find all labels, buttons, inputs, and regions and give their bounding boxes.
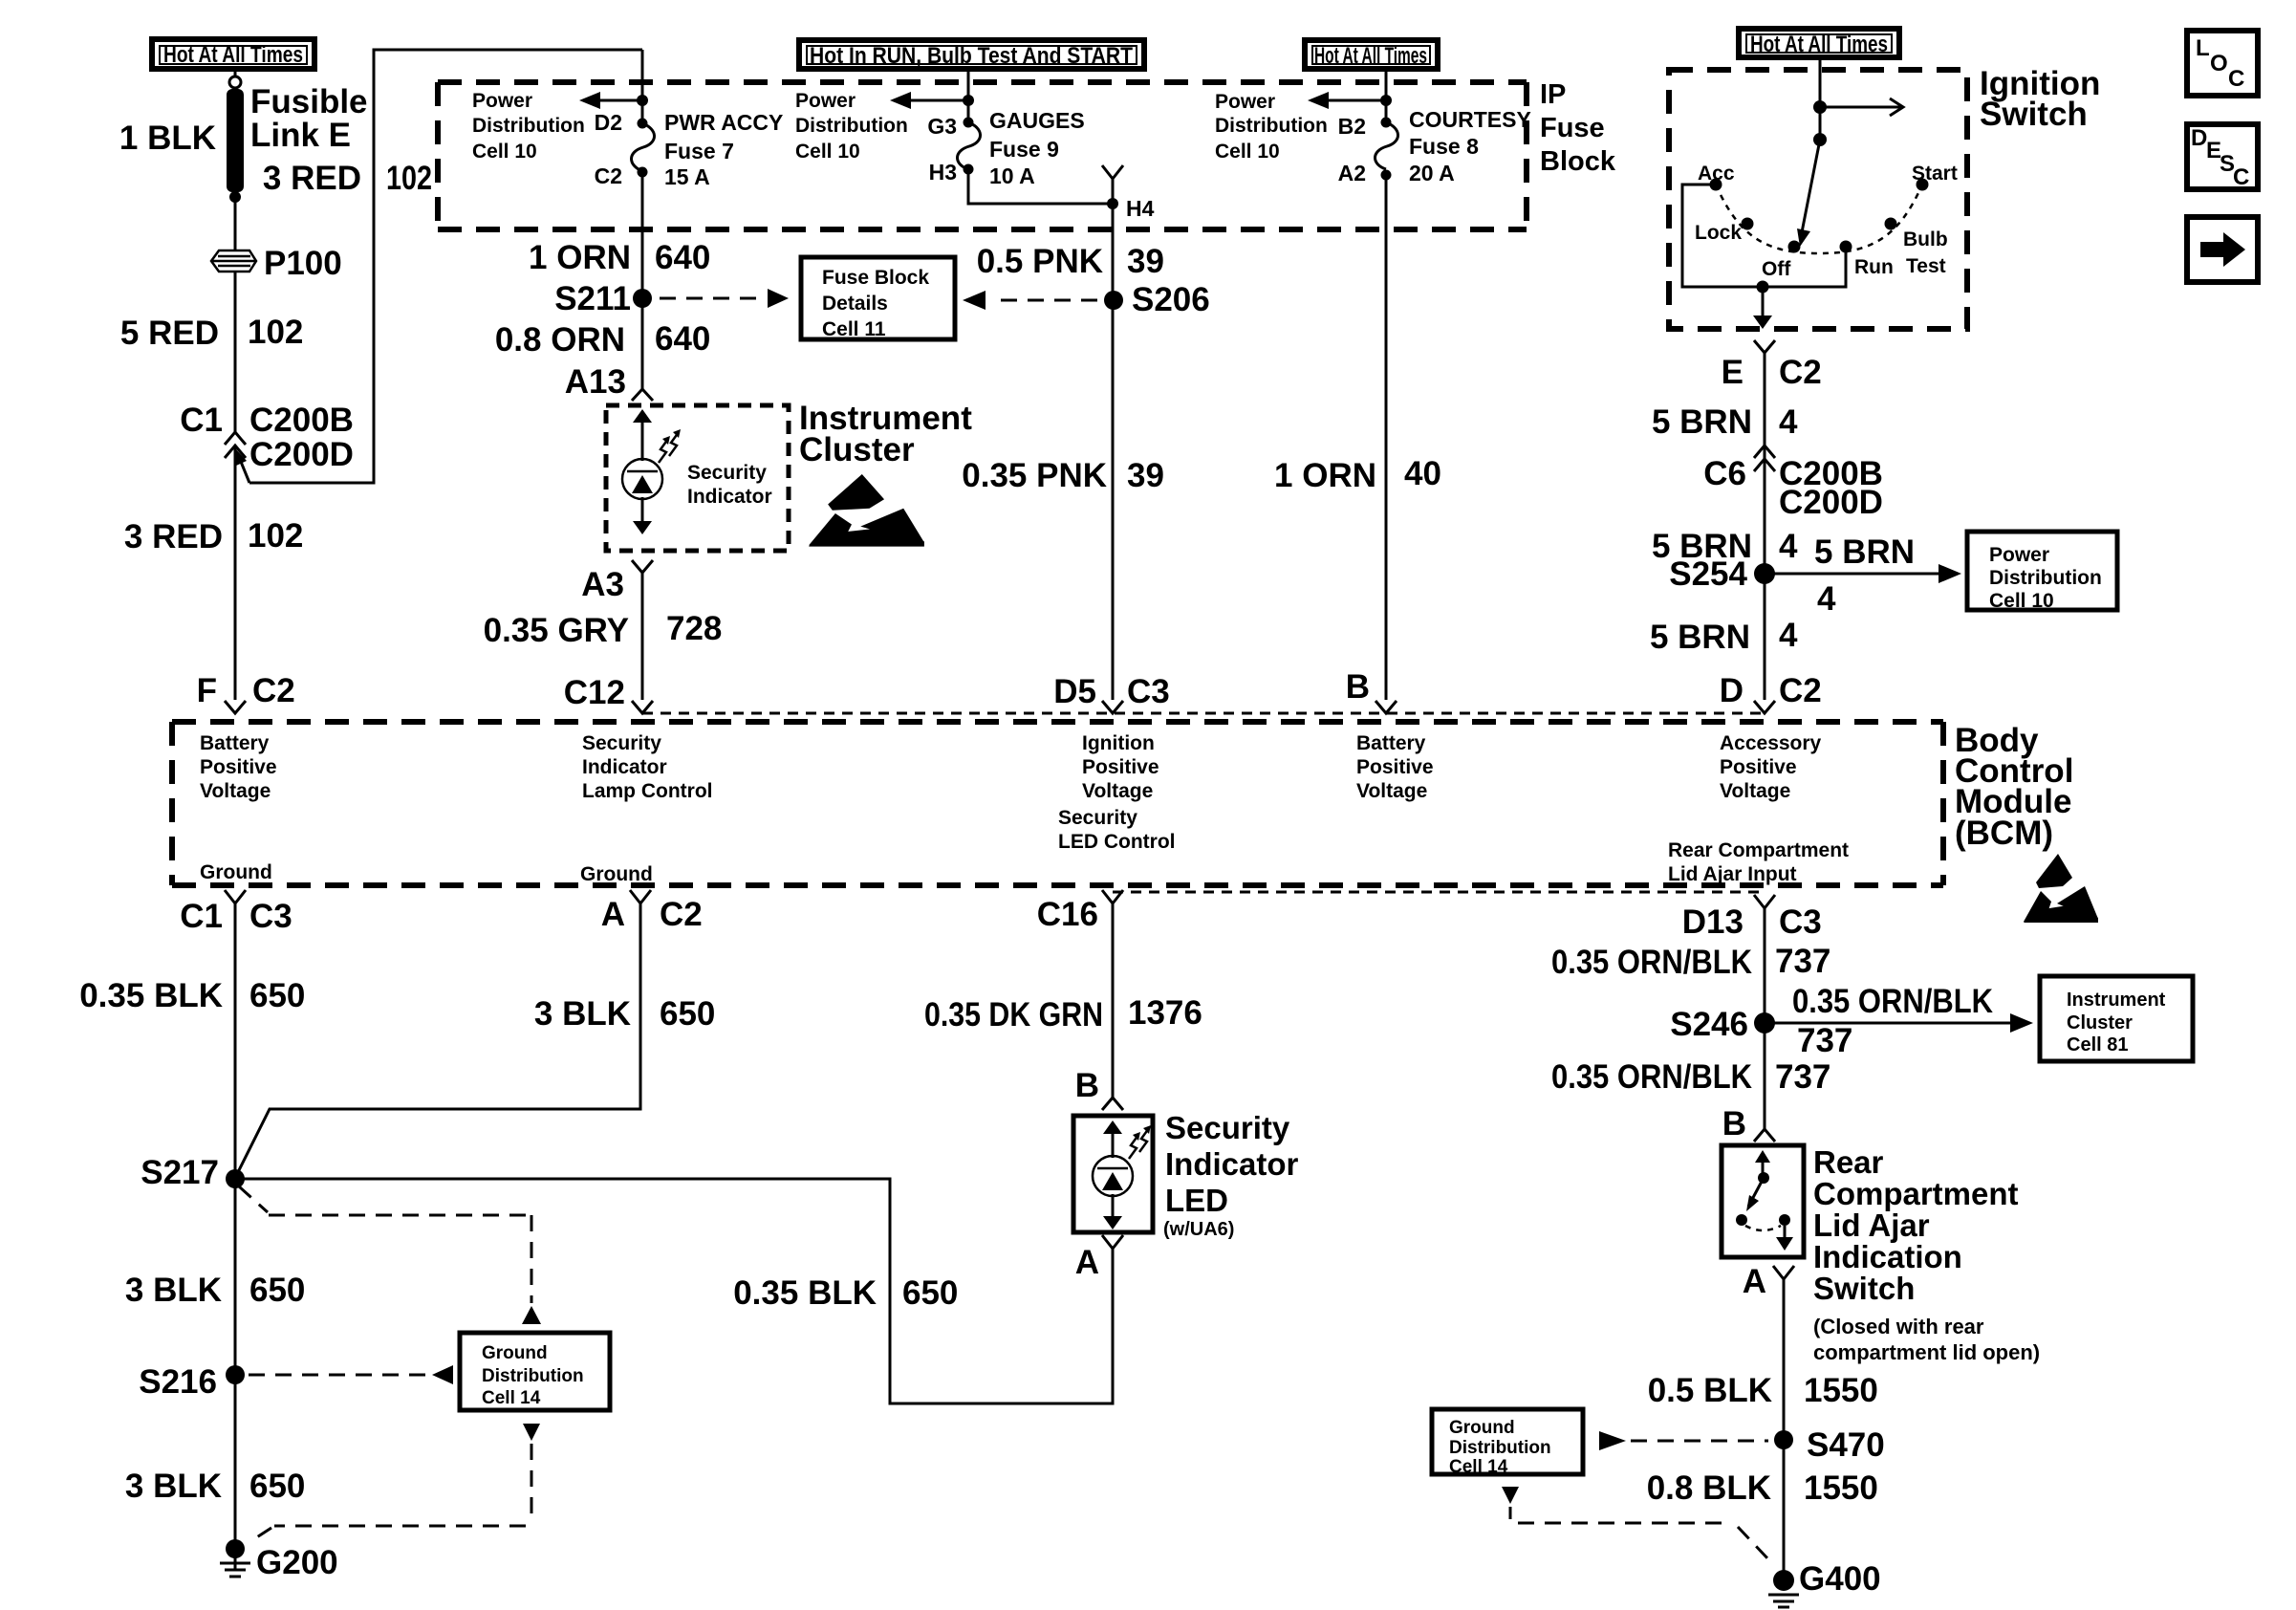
svg-text:G400: G400 [1799, 1560, 1881, 1598]
svg-text:4: 4 [1779, 528, 1798, 565]
svg-text:A13: A13 [565, 363, 626, 401]
svg-text:Acc: Acc [1698, 163, 1735, 185]
svg-text:C2: C2 [595, 163, 622, 188]
svg-text:A2: A2 [1338, 161, 1366, 185]
reference box Power Distribution Cell 10 (right) [1967, 532, 2117, 612]
connector chevron pin C12 into BCM [632, 701, 653, 713]
svg-text:5 BRN: 5 BRN [1652, 403, 1752, 441]
arrow S246 to Instrument Cluster Cell 81 [1765, 1013, 2033, 1033]
ignition switch wiper arrow [1797, 140, 1820, 247]
wire col A: C200 to BCM pin F [234, 446, 237, 700]
IP fuse block dashed box [438, 82, 1527, 229]
ignition switch dashed box [1669, 70, 1967, 329]
svg-text:Ground: Ground [580, 863, 653, 885]
svg-text:G3: G3 [927, 114, 957, 139]
svg-text:S211: S211 [554, 280, 631, 317]
svg-text:Voltage: Voltage [200, 780, 271, 802]
svg-text:Voltage: Voltage [1356, 780, 1427, 802]
svg-text:0.8 ORN: 0.8 ORN [495, 321, 625, 359]
svg-text:Cell 10: Cell 10 [1215, 141, 1280, 163]
svg-text:compartment lid open): compartment lid open) [1813, 1340, 2040, 1364]
svg-text:D: D [1720, 672, 1744, 709]
BCM dashed box [172, 722, 1943, 885]
svg-text:1550: 1550 [1804, 1372, 1878, 1409]
svg-text:40: 40 [1404, 455, 1441, 492]
ground G200 symbol [220, 1539, 250, 1577]
svg-text:C2: C2 [252, 672, 295, 709]
connector Y pin A of LED [1102, 1235, 1123, 1249]
svg-text:Instrument: Instrument [2067, 990, 2166, 1011]
svg-text:Lid Ajar Input: Lid Ajar Input [1668, 863, 1797, 885]
svg-text:Switch: Switch [1980, 96, 2088, 133]
svg-text:Cluster: Cluster [799, 431, 915, 468]
switch symbol inside box [1736, 1150, 1793, 1251]
svg-text:1 BLK: 1 BLK [119, 120, 216, 157]
contact dot Lock [1742, 218, 1754, 230]
svg-text:Hot At All Times: Hot At All Times [1314, 43, 1427, 69]
svg-text:Rear Compartment: Rear Compartment [1668, 839, 1849, 861]
svg-text:Cell 14: Cell 14 [482, 1388, 541, 1408]
ESD symbol (BCM) [2024, 854, 2098, 923]
connector Y pin H4 top [1102, 165, 1123, 179]
arrow right inside ignition switch [1820, 98, 1903, 116]
wire H4 stem [1112, 179, 1115, 229]
svg-text:C: C [2233, 164, 2249, 190]
svg-text:39: 39 [1127, 243, 1164, 280]
svg-text:Compartment: Compartment [1813, 1176, 2019, 1211]
svg-text:Fuse Block: Fuse Block [822, 267, 929, 289]
svg-text:IP: IP [1540, 79, 1566, 110]
svg-text:B: B [1346, 668, 1370, 706]
svg-text:Lock: Lock [1695, 222, 1742, 244]
connector chevron pin C1 below BCM [225, 890, 246, 903]
svg-text:Block: Block [1540, 146, 1616, 177]
svg-text:Fuse: Fuse [1540, 113, 1605, 143]
svg-text:650: 650 [249, 1468, 305, 1505]
svg-text:C16: C16 [1037, 896, 1098, 933]
rear compartment lid ajar indication switch box [1722, 1145, 1804, 1257]
wire col A: fusible link to P100 [234, 197, 237, 250]
junction dot wiper pivot [1813, 133, 1827, 146]
BCM bottom connector fine dashed line [1113, 891, 1765, 894]
junction dot fuse 8 feed [1380, 95, 1392, 106]
svg-text:Security: Security [687, 462, 767, 484]
dashed path Ground Distribution (right) to G400 [1502, 1487, 1769, 1560]
svg-text:Positive: Positive [1720, 756, 1797, 778]
svg-text:B2: B2 [1338, 114, 1366, 139]
reference box forward arrow [2187, 217, 2258, 282]
svg-text:Security: Security [1165, 1110, 1290, 1145]
fuse F8 COURTESY [1375, 118, 1398, 181]
svg-text:Power: Power [472, 90, 532, 112]
ESD symbol (instrument cluster) [809, 474, 924, 547]
svg-text:3 BLK: 3 BLK [125, 1468, 222, 1505]
lightning rays on LED [1129, 1125, 1151, 1159]
power label box "Hot In RUN, Bulb Test And START" [799, 40, 1144, 69]
svg-text:10 A: 10 A [989, 163, 1035, 188]
svg-text:5 BRN: 5 BRN [1650, 619, 1750, 656]
svg-text:D: D [2191, 125, 2207, 151]
svg-text:Battery: Battery [200, 732, 270, 754]
svg-text:Ignition: Ignition [1082, 732, 1155, 754]
svg-text:Security: Security [582, 732, 661, 754]
svg-text:0.8 BLK: 0.8 BLK [1647, 1469, 1771, 1507]
svg-text:(w/UA6): (w/UA6) [1163, 1219, 1234, 1240]
wire col A: P100 to C200 connector [234, 272, 237, 432]
power label box "Hot At All Times" (middle) [1305, 40, 1438, 69]
svg-text:Lid Ajar: Lid Ajar [1813, 1207, 1930, 1243]
svg-text:Cell 10: Cell 10 [472, 141, 537, 163]
svg-text:5 RED: 5 RED [120, 315, 219, 352]
connector P100 (pass-through grommet) [211, 250, 256, 272]
connector chevron pin F into BCM [225, 701, 246, 713]
svg-text:S246: S246 [1670, 1006, 1748, 1043]
wire feed into ignition switch [1819, 60, 1822, 140]
svg-text:Positive: Positive [200, 756, 277, 778]
svg-text:5 BRN: 5 BRN [1814, 533, 1915, 571]
svg-text:D5: D5 [1053, 673, 1096, 710]
svg-text:20 A: 20 A [1409, 161, 1455, 185]
svg-text:640: 640 [655, 239, 710, 276]
security indicator lamp symbol in instrument cluster [622, 409, 662, 534]
svg-text:0.5 BLK: 0.5 BLK [1648, 1372, 1772, 1409]
arrow to Power Distribution (fuse 8) [1308, 92, 1386, 109]
svg-text:A: A [1075, 1244, 1099, 1281]
svg-text:102: 102 [386, 160, 432, 197]
reference box Fuse Block Details Cell 11 [801, 257, 955, 340]
svg-text:Cluster: Cluster [2067, 1012, 2133, 1033]
wire from Hot In RUN box to fuse 9 [967, 72, 970, 122]
contact dot Off [1788, 241, 1801, 253]
contact dot Acc [1710, 179, 1722, 191]
arrow to Power Distribution (fuse 7) [579, 92, 642, 109]
output stem with arrow to box edge [1753, 287, 1772, 329]
splice S216 [226, 1365, 245, 1384]
dashed arrow S206 to Fuse Block Details [963, 291, 1097, 310]
svg-text:C1: C1 [180, 898, 223, 935]
reference box Ground Distribution Cell 14 (right) [1432, 1409, 1583, 1477]
svg-text:102: 102 [248, 517, 303, 555]
svg-text:F: F [197, 672, 217, 709]
svg-text:S470: S470 [1807, 1426, 1885, 1464]
splice S246 [1754, 1012, 1775, 1033]
contact dot Run [1840, 241, 1852, 253]
svg-text:A: A [601, 896, 625, 933]
svg-text:(BCM): (BCM) [1955, 815, 2053, 852]
svg-text:Power: Power [795, 90, 856, 112]
svg-text:0.35 ORN/BLK: 0.35 ORN/BLK [1792, 983, 1993, 1020]
svg-text:L: L [2196, 35, 2210, 61]
svg-text:Hot In RUN, Bulb Test And STAR: Hot In RUN, Bulb Test And START [810, 43, 1133, 69]
svg-text:C2: C2 [1779, 672, 1822, 709]
svg-text:COURTESY: COURTESY [1409, 107, 1531, 132]
svg-text:E: E [1722, 354, 1744, 391]
svg-text:0.5 PNK: 0.5 PNK [977, 243, 1103, 280]
wire fuse 9 output to H4 [968, 169, 1113, 204]
svg-text:Rear: Rear [1813, 1144, 1884, 1180]
svg-text:Indicator: Indicator [582, 756, 667, 778]
svg-text:650: 650 [249, 977, 305, 1014]
reference box LOC [2187, 31, 2258, 96]
svg-text:C3: C3 [1779, 903, 1822, 941]
lightning rays on security indicator [659, 429, 681, 463]
svg-text:728: 728 [666, 610, 722, 647]
junction dot fuse 7 feed [637, 95, 648, 106]
wire: switch A to S470 to G400 [1783, 1279, 1786, 1571]
svg-text:Distribution: Distribution [1449, 1438, 1551, 1458]
svg-text:4: 4 [1817, 580, 1836, 618]
wire right col: D13 to S246 to switch [1764, 908, 1766, 1129]
connector chevron pin D5 into BCM [1102, 701, 1123, 713]
connector chevron pin B of switch [1754, 1129, 1775, 1142]
svg-text:Security: Security [1058, 807, 1137, 829]
svg-text:Fuse 8: Fuse 8 [1409, 134, 1479, 159]
svg-text:0.35 ORN/BLK: 0.35 ORN/BLK [1551, 944, 1752, 981]
svg-text:737: 737 [1797, 1022, 1852, 1059]
svg-text:Link E: Link E [250, 117, 351, 154]
arrow S254 to Power Distribution Cell 10 [1765, 564, 1961, 583]
svg-text:4: 4 [1779, 403, 1798, 441]
svg-text:Cell 14: Cell 14 [1449, 1457, 1508, 1477]
wire col C: H4 to S206 to BCM pin D5 [1112, 204, 1115, 700]
svg-text:0.35 PNK: 0.35 PNK [962, 457, 1107, 494]
svg-text:C3: C3 [1127, 673, 1170, 710]
connector Y pin D13 below BCM [1754, 895, 1775, 908]
svg-text:Ground: Ground [482, 1343, 548, 1363]
dashed arrow Ground Distribution to S470 [1599, 1431, 1768, 1450]
connector chevron pin B of LED [1102, 1098, 1123, 1110]
svg-text:650: 650 [902, 1274, 958, 1312]
wire right column: E to S254 to BCM pin D [1764, 353, 1766, 700]
svg-text:Distribution: Distribution [472, 115, 585, 137]
svg-text:C1: C1 [180, 402, 223, 439]
svg-text:Switch: Switch [1813, 1271, 1915, 1306]
connector Y pin C16 below BCM [1102, 890, 1123, 903]
dashed path Ground Distribution box to G200 [249, 1424, 540, 1542]
connector chevron A3 [632, 560, 653, 573]
svg-text:Cell 10: Cell 10 [795, 141, 860, 163]
dashed path S217 to Ground Distribution Cell 14 [239, 1186, 541, 1324]
svg-text:S206: S206 [1132, 281, 1210, 318]
contact dot Bulb Test [1885, 218, 1897, 230]
svg-text:Hot At All Times: Hot At All Times [1750, 32, 1888, 57]
svg-text:Distribution: Distribution [1215, 115, 1328, 137]
svg-text:Run: Run [1854, 256, 1894, 278]
svg-text:P100: P100 [264, 245, 342, 282]
svg-text:0.35 BLK: 0.35 BLK [733, 1274, 877, 1312]
svg-text:C200D: C200D [1779, 484, 1883, 521]
svg-text:Cell 11: Cell 11 [822, 318, 886, 340]
svg-text:C2: C2 [660, 896, 703, 933]
dashed arrow S216 to Ground Distribution box [249, 1365, 453, 1384]
svg-text:39: 39 [1127, 457, 1164, 494]
security indicator LED symbol [1093, 1120, 1133, 1229]
svg-text:C6: C6 [1703, 455, 1746, 492]
svg-text:LED Control: LED Control [1058, 831, 1175, 853]
instrument cluster dashed box [606, 405, 789, 551]
dotted arc of switch positions [1716, 185, 1922, 253]
splice S206 [1104, 291, 1123, 310]
svg-text:Fusible: Fusible [250, 83, 368, 120]
fuse F9 GAUGES [958, 118, 981, 175]
svg-text:S217: S217 [141, 1154, 219, 1191]
svg-text:0.35 ORN/BLK: 0.35 ORN/BLK [1551, 1058, 1752, 1096]
fuse F7 PWR ACCY (dots + squiggle) [632, 119, 655, 178]
svg-text:3 RED: 3 RED [263, 160, 361, 197]
junction dot ignition feed [1813, 100, 1827, 114]
svg-text:Lamp Control: Lamp Control [582, 780, 713, 802]
reference box Instrument Cluster Cell 81 [2040, 976, 2193, 1061]
svg-text:Indication: Indication [1813, 1239, 1962, 1274]
svg-text:S254: S254 [1669, 555, 1747, 593]
svg-text:D13: D13 [1682, 903, 1744, 941]
svg-text:Cell 81: Cell 81 [2067, 1034, 2128, 1055]
svg-text:H3: H3 [929, 160, 957, 185]
wire from Hot At All Times to fuse 8 [1385, 72, 1388, 122]
svg-text:B: B [1075, 1067, 1099, 1104]
svg-text:650: 650 [249, 1272, 305, 1309]
svg-text:C200B: C200B [249, 402, 354, 439]
svg-text:Fuse 7: Fuse 7 [664, 139, 734, 163]
wire: feed bend from column B top to C200D connector [236, 50, 642, 483]
svg-text:H4: H4 [1126, 196, 1155, 221]
contact dot Start [1917, 179, 1929, 191]
svg-text:Test: Test [1906, 255, 1946, 277]
svg-text:0.35 GRY: 0.35 GRY [484, 612, 629, 649]
connector chevron pin D into BCM [1754, 701, 1775, 713]
svg-text:Off: Off [1762, 258, 1791, 280]
junction dot fuse 9 feed [963, 95, 974, 106]
splice S211 [633, 289, 652, 308]
reference box DESC [2187, 124, 2258, 190]
svg-text:4: 4 [1779, 617, 1798, 654]
wire col B: A3 to BCM pin C12 [641, 573, 644, 700]
svg-text:C200D: C200D [249, 436, 354, 473]
wire col B: fuse 7 to S211 to A13 [641, 172, 644, 389]
svg-text:Hot At All Times: Hot At All Times [163, 42, 303, 68]
splice S470 [1774, 1430, 1793, 1449]
connector chevron pin A below BCM [630, 890, 651, 903]
svg-text:Ground: Ground [1449, 1418, 1515, 1438]
svg-text:S216: S216 [139, 1363, 217, 1401]
svg-text:A: A [1743, 1263, 1766, 1300]
ground G400 symbol [1768, 1570, 1799, 1607]
wire col A: BCM to S217 to S216 to G200 [234, 903, 237, 1571]
reference box Ground Distribution Cell 14 (left) [460, 1333, 610, 1410]
svg-text:B: B [1722, 1105, 1746, 1142]
svg-text:C2: C2 [1779, 354, 1822, 391]
svg-text:GAUGES: GAUGES [989, 108, 1085, 133]
svg-text:Fuse 9: Fuse 9 [989, 137, 1059, 162]
wire col D: fuse 8 to BCM pin B [1385, 175, 1388, 700]
svg-text:Battery: Battery [1356, 732, 1426, 754]
wire col B into fuse 7 [641, 50, 644, 123]
svg-text:Accessory: Accessory [1720, 732, 1822, 754]
connector Y pin A of switch [1773, 1266, 1794, 1279]
security indicator LED box [1073, 1116, 1153, 1232]
svg-text:640: 640 [655, 320, 710, 358]
svg-text:PWR ACCY: PWR ACCY [664, 110, 783, 135]
wire col C: C16 to Security LED [1112, 903, 1115, 1098]
svg-text:C: C [2228, 66, 2244, 92]
svg-text:Distribution: Distribution [795, 115, 908, 137]
splice S217 [226, 1169, 245, 1188]
svg-text:LED: LED [1165, 1183, 1228, 1218]
connector chevron A13 [632, 389, 653, 401]
svg-text:Voltage: Voltage [1720, 780, 1790, 802]
svg-text:Power: Power [1215, 91, 1275, 113]
svg-text:Indicator: Indicator [1165, 1146, 1299, 1182]
svg-text:15 A: 15 A [664, 164, 710, 189]
svg-text:G200: G200 [256, 1544, 338, 1581]
connector chevron pin B into BCM [1375, 701, 1397, 713]
svg-text:Cell 10: Cell 10 [1989, 590, 2054, 612]
svg-text:102: 102 [248, 314, 303, 351]
svg-text:Indicator: Indicator [687, 486, 772, 508]
svg-text:Bulb: Bulb [1903, 228, 1948, 250]
svg-text:C12: C12 [564, 674, 625, 711]
connector C200B/C200D (right, double chevron) [1754, 446, 1775, 471]
svg-text:Power: Power [1989, 544, 2049, 566]
wire stub from Hot At All Times box to fusible link [234, 69, 237, 76]
svg-text:3 BLK: 3 BLK [534, 995, 631, 1033]
svg-text:A3: A3 [581, 566, 624, 603]
wire col B ground: BCM pin A to S217 [235, 903, 640, 1178]
splice S254 [1754, 563, 1775, 584]
dashed arrow S211 to Fuse Block Details [660, 289, 789, 308]
svg-text:Details: Details [822, 293, 888, 315]
junction dot accessory output [1757, 281, 1769, 294]
arrow to Power Distribution (fuse 9) [890, 92, 968, 109]
svg-text:Ground: Ground [200, 861, 272, 883]
wire Acc contact to Run contact (accessory bus) [1682, 185, 1846, 287]
svg-text:1376: 1376 [1128, 994, 1202, 1032]
svg-text:(Closed with rear: (Closed with rear [1813, 1315, 1984, 1338]
svg-text:737: 737 [1775, 1058, 1830, 1096]
connector C200B/C200D (double chevron) [225, 432, 246, 458]
svg-text:1550: 1550 [1804, 1469, 1878, 1507]
power label box "Hot At All Times" (ignition) [1739, 29, 1899, 57]
svg-text:3 BLK: 3 BLK [125, 1272, 222, 1309]
svg-text:3 RED: 3 RED [124, 518, 223, 555]
svg-text:Start: Start [1912, 163, 1958, 185]
BCM top connector fine dashed line [642, 712, 1765, 715]
svg-text:Distribution: Distribution [1989, 567, 2102, 589]
svg-text:Positive: Positive [1356, 756, 1434, 778]
svg-text:Positive: Positive [1082, 756, 1159, 778]
power label box "Hot At All Times" (left) [152, 39, 314, 69]
svg-text:0.35 DK GRN: 0.35 DK GRN [924, 996, 1103, 1033]
fusible link E (thick bar with top circle) [227, 76, 244, 203]
junction dot H4 [1107, 198, 1118, 209]
svg-text:650: 650 [660, 995, 715, 1033]
wire LED ground: A to S217 route [235, 1179, 1113, 1403]
connector chevron pin E [1754, 340, 1775, 353]
svg-text:D2: D2 [595, 110, 622, 135]
svg-text:O: O [2210, 51, 2228, 76]
svg-text:737: 737 [1775, 943, 1830, 980]
svg-text:C3: C3 [249, 898, 292, 935]
svg-text:1 ORN: 1 ORN [529, 239, 631, 276]
svg-text:0.35 BLK: 0.35 BLK [79, 977, 223, 1014]
svg-text:Voltage: Voltage [1082, 780, 1153, 802]
svg-text:Distribution: Distribution [482, 1366, 584, 1386]
svg-text:1 ORN: 1 ORN [1274, 457, 1376, 494]
